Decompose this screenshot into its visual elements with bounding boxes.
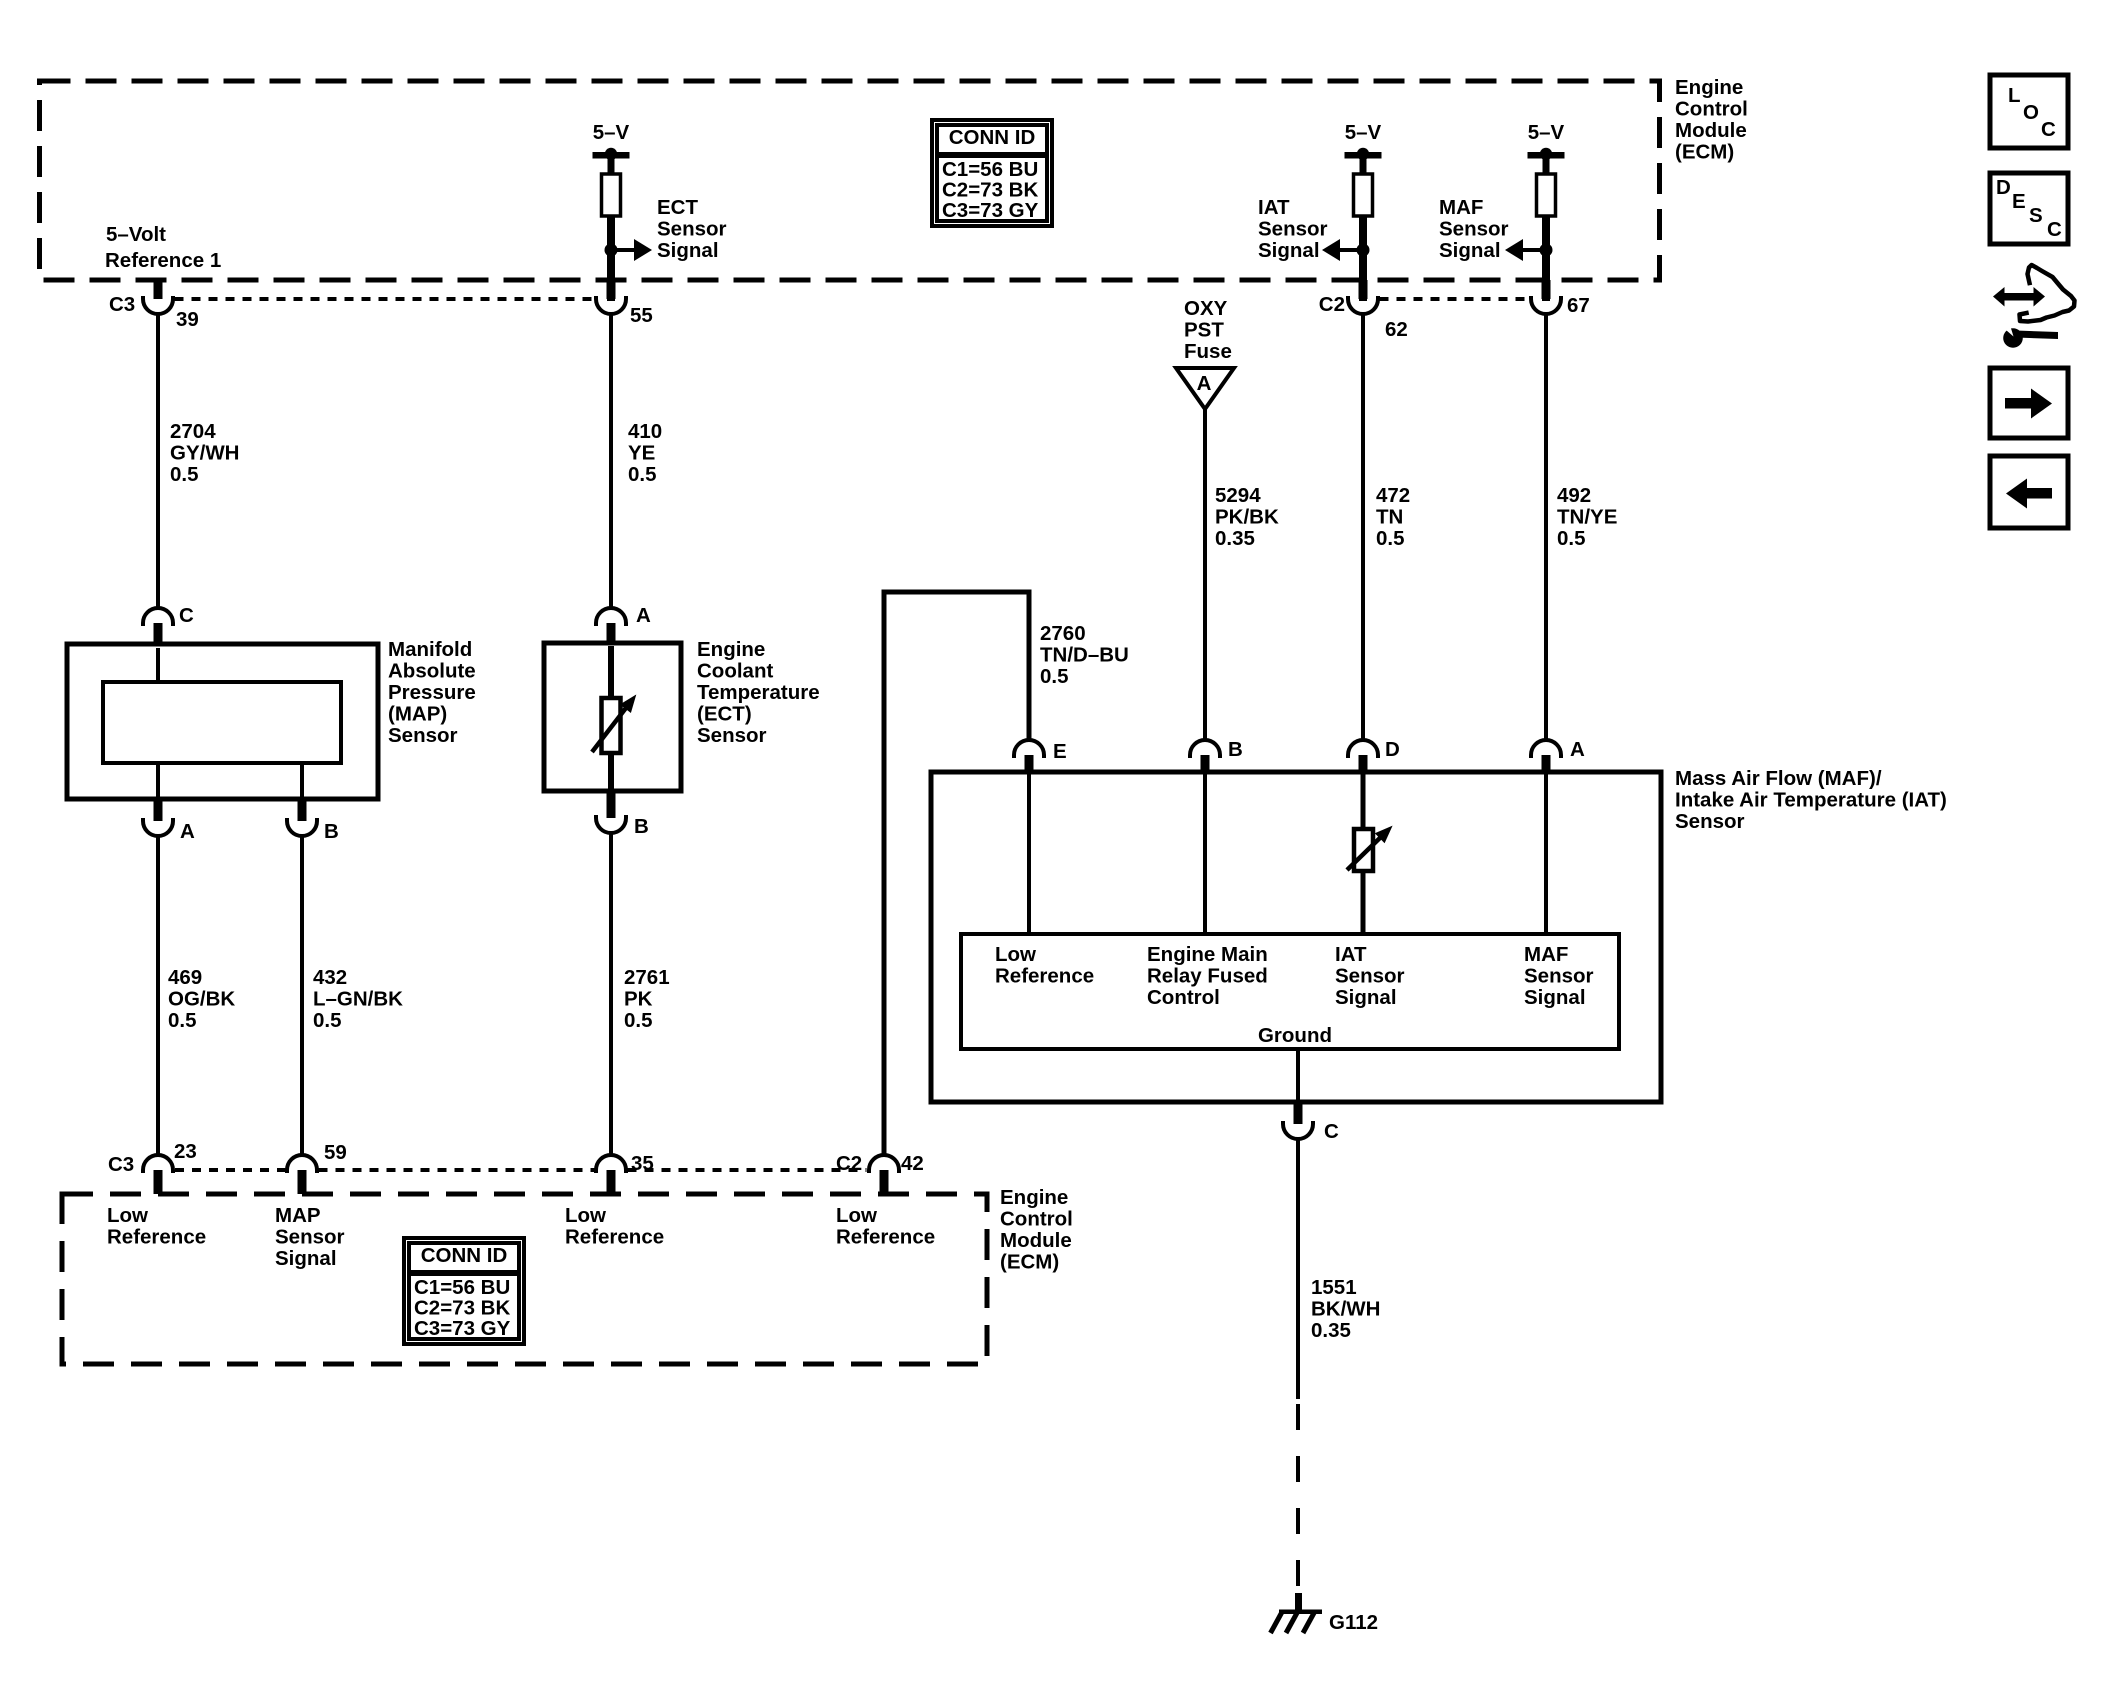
svg-text:Sensor: Sensor [1675, 810, 1745, 833]
svg-text:67: 67 [1567, 294, 1590, 317]
svg-text:OG/BK: OG/BK [168, 988, 235, 1011]
svg-text:Sensor: Sensor [388, 724, 458, 747]
svg-text:C3: C3 [108, 1153, 134, 1176]
svg-text:PK: PK [624, 988, 653, 1011]
svg-text:0.5: 0.5 [1376, 527, 1405, 550]
svg-text:Engine: Engine [1675, 76, 1743, 99]
svg-text:Control: Control [1147, 986, 1220, 1009]
svg-text:23: 23 [174, 1140, 197, 1163]
svg-text:(ECM): (ECM) [1675, 141, 1734, 164]
svg-text:55: 55 [630, 304, 653, 327]
svg-text:Signal: Signal [1335, 986, 1397, 1009]
svg-text:Low: Low [995, 943, 1036, 966]
svg-text:C2: C2 [836, 1152, 862, 1175]
svg-text:469: 469 [168, 966, 202, 989]
svg-text:C3: C3 [109, 293, 135, 316]
svg-text:D: D [1385, 738, 1400, 761]
svg-text:Signal: Signal [275, 1247, 337, 1270]
svg-text:Sensor: Sensor [1258, 218, 1328, 241]
svg-text:Reference: Reference [107, 1226, 206, 1249]
svg-text:0.5: 0.5 [1557, 527, 1586, 550]
svg-text:59: 59 [324, 1141, 347, 1164]
svg-text:C3=73 GY: C3=73 GY [414, 1317, 511, 1340]
svg-text:Reference 1: Reference 1 [105, 249, 221, 272]
svg-text:O: O [2023, 101, 2039, 124]
svg-text:Signal: Signal [657, 239, 719, 262]
svg-text:Low: Low [107, 1204, 148, 1227]
svg-text:Sensor: Sensor [657, 218, 727, 241]
svg-text:IAT: IAT [1335, 943, 1367, 966]
svg-text:39: 39 [176, 308, 199, 331]
svg-text:0.35: 0.35 [1215, 527, 1255, 550]
svg-text:62: 62 [1385, 318, 1408, 341]
svg-text:Pressure: Pressure [388, 681, 476, 704]
svg-text:PST: PST [1184, 319, 1224, 342]
svg-text:E: E [1053, 740, 1067, 763]
svg-text:A: A [1197, 372, 1212, 395]
svg-text:Temperature: Temperature [697, 681, 820, 704]
svg-text:(ECT): (ECT) [697, 703, 752, 726]
svg-text:BK/WH: BK/WH [1311, 1298, 1380, 1321]
svg-text:Manifold: Manifold [388, 638, 472, 661]
svg-text:S: S [2029, 204, 2043, 227]
svg-text:0.5: 0.5 [624, 1009, 653, 1032]
svg-text:TN/D–BU: TN/D–BU [1040, 644, 1129, 667]
svg-text:0.5: 0.5 [628, 463, 657, 486]
svg-text:5–V: 5–V [1345, 121, 1382, 144]
svg-text:IAT: IAT [1258, 196, 1290, 219]
svg-text:Signal: Signal [1524, 986, 1586, 1009]
svg-text:0.5: 0.5 [170, 463, 199, 486]
svg-text:Engine: Engine [697, 638, 765, 661]
svg-text:G112: G112 [1329, 1611, 1378, 1634]
svg-text:Sensor: Sensor [1335, 965, 1405, 988]
svg-text:B: B [1228, 738, 1243, 761]
svg-text:Engine: Engine [1000, 1186, 1068, 1209]
svg-text:MAF: MAF [1439, 196, 1483, 219]
svg-text:MAP: MAP [275, 1204, 321, 1227]
svg-text:TN/YE: TN/YE [1557, 506, 1617, 529]
svg-text:0.5: 0.5 [168, 1009, 197, 1032]
svg-text:PK/BK: PK/BK [1215, 506, 1279, 529]
svg-text:A: A [180, 820, 195, 843]
svg-text:B: B [324, 820, 339, 843]
svg-text:Signal: Signal [1439, 239, 1501, 262]
svg-text:2704: 2704 [170, 420, 216, 443]
svg-text:MAF: MAF [1524, 943, 1568, 966]
svg-text:Low: Low [836, 1204, 877, 1227]
svg-text:L: L [2008, 84, 2021, 107]
svg-text:Intake Air Temperature (IAT): Intake Air Temperature (IAT) [1675, 789, 1947, 812]
svg-text:42: 42 [901, 1152, 924, 1175]
svg-text:L–GN/BK: L–GN/BK [313, 988, 403, 1011]
svg-text:5–V: 5–V [1528, 121, 1565, 144]
svg-text:Ground: Ground [1258, 1024, 1332, 1047]
svg-text:(ECM): (ECM) [1000, 1251, 1059, 1274]
svg-text:Reference: Reference [836, 1226, 935, 1249]
svg-text:0.35: 0.35 [1311, 1319, 1351, 1342]
svg-text:Low: Low [565, 1204, 606, 1227]
svg-text:Module: Module [1675, 119, 1747, 142]
svg-text:GY/WH: GY/WH [170, 442, 239, 465]
svg-text:432: 432 [313, 966, 347, 989]
svg-text:C3=73 GY: C3=73 GY [942, 199, 1039, 222]
svg-text:Module: Module [1000, 1229, 1072, 1252]
svg-text:Fuse: Fuse [1184, 340, 1232, 363]
svg-text:A: A [636, 604, 651, 627]
svg-text:Control: Control [1675, 98, 1748, 121]
svg-text:5–V: 5–V [593, 121, 630, 144]
svg-text:472: 472 [1376, 484, 1410, 507]
svg-text:E: E [2012, 190, 2026, 213]
svg-text:A: A [1570, 738, 1585, 761]
svg-text:5294: 5294 [1215, 484, 1261, 507]
svg-text:2760: 2760 [1040, 622, 1086, 645]
svg-text:C: C [179, 604, 194, 627]
svg-text:Sensor: Sensor [1524, 965, 1594, 988]
svg-text:0.5: 0.5 [1040, 665, 1069, 688]
svg-text:Relay Fused: Relay Fused [1147, 965, 1268, 988]
svg-text:C: C [2041, 118, 2056, 141]
svg-text:C: C [1324, 1120, 1339, 1143]
svg-text:Reference: Reference [565, 1226, 664, 1249]
svg-text:Sensor: Sensor [275, 1226, 345, 1249]
svg-text:CONN ID: CONN ID [421, 1244, 508, 1267]
svg-text:Engine Main: Engine Main [1147, 943, 1268, 966]
svg-text:C: C [2047, 218, 2062, 241]
svg-text:YE: YE [628, 442, 655, 465]
svg-text:TN: TN [1376, 506, 1403, 529]
svg-text:2761: 2761 [624, 966, 670, 989]
svg-text:Signal: Signal [1258, 239, 1320, 262]
svg-text:Sensor: Sensor [1439, 218, 1509, 241]
svg-text:410: 410 [628, 420, 662, 443]
svg-text:492: 492 [1557, 484, 1591, 507]
svg-text:D: D [1996, 176, 2011, 199]
svg-text:ECT: ECT [657, 196, 698, 219]
svg-text:CONN ID: CONN ID [949, 126, 1036, 149]
svg-text:Sensor: Sensor [697, 724, 767, 747]
svg-text:35: 35 [631, 1152, 654, 1175]
svg-text:(MAP): (MAP) [388, 703, 447, 726]
svg-text:Mass Air Flow (MAF)/: Mass Air Flow (MAF)/ [1675, 767, 1882, 790]
svg-text:Control: Control [1000, 1208, 1073, 1231]
svg-text:OXY: OXY [1184, 297, 1228, 320]
svg-text:C2: C2 [1319, 293, 1345, 316]
svg-text:5–Volt: 5–Volt [106, 223, 166, 246]
svg-text:Coolant: Coolant [697, 660, 773, 683]
svg-text:0.5: 0.5 [313, 1009, 342, 1032]
svg-text:B: B [634, 815, 649, 838]
svg-text:1551: 1551 [1311, 1276, 1357, 1299]
svg-text:Reference: Reference [995, 965, 1094, 988]
svg-text:Absolute: Absolute [388, 660, 476, 683]
